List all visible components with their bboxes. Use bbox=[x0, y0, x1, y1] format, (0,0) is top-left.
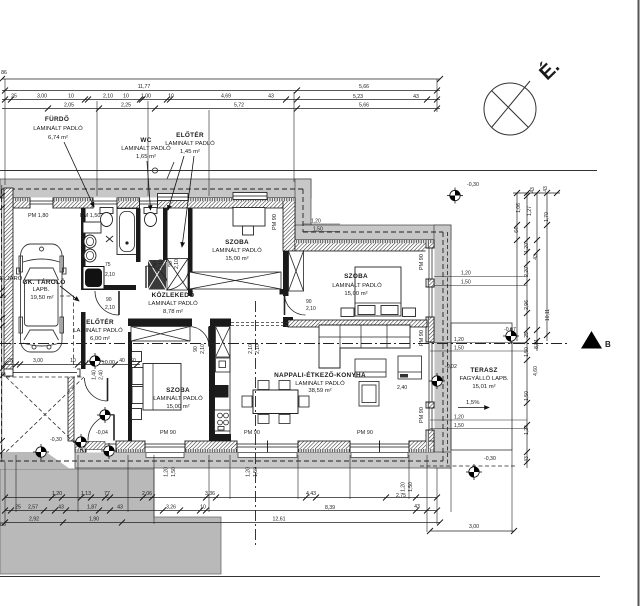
svg-text:25: 25 bbox=[11, 94, 17, 100]
svg-text:43: 43 bbox=[413, 94, 419, 100]
svg-text:PM 90: PM 90 bbox=[272, 214, 278, 230]
rotated window dims bottom bbox=[164, 467, 415, 492]
svg-text:2,10: 2,10 bbox=[103, 94, 113, 100]
interior wall kitchen pier south bbox=[209, 434, 231, 441]
svg-text:2,05: 2,05 bbox=[64, 103, 74, 109]
window nappali south left bbox=[237, 441, 298, 453]
top chain slash ticks bbox=[0, 76, 443, 112]
svg-text:1,50: 1,50 bbox=[454, 346, 464, 352]
svg-text:3,00: 3,00 bbox=[33, 358, 43, 364]
room label eloter1 bbox=[165, 130, 215, 155]
room label wc bbox=[121, 137, 171, 160]
svg-text:25: 25 bbox=[1, 371, 7, 377]
svg-text:1,24: 1,24 bbox=[524, 425, 530, 435]
svg-text:SZOBA: SZOBA bbox=[225, 239, 249, 246]
svg-text:±0,00: ±0,00 bbox=[102, 360, 115, 366]
svg-text:1,50: 1,50 bbox=[313, 227, 323, 233]
left chain small labels bbox=[1, 294, 7, 377]
wall inner tick row south bbox=[75, 449, 434, 452]
svg-text:3,36: 3,36 bbox=[205, 491, 215, 497]
svg-text:5,72: 5,72 bbox=[234, 103, 244, 109]
svg-text:PM 1,50: PM 1,50 bbox=[80, 213, 100, 219]
svg-text:64: 64 bbox=[514, 227, 520, 233]
svg-text:SZOBA: SZOBA bbox=[166, 387, 190, 394]
svg-text:38,59 m²: 38,59 m² bbox=[308, 388, 331, 394]
svg-text:2,25: 2,25 bbox=[121, 103, 131, 109]
eaves dashed line north bbox=[2, 188, 303, 190]
svg-text:ELŐTÉR: ELŐTÉR bbox=[176, 130, 204, 139]
svg-text:2,10: 2,10 bbox=[105, 272, 115, 278]
svg-text:2,10: 2,10 bbox=[255, 344, 261, 354]
bath basin 1 bbox=[84, 235, 96, 248]
szoba3 bed bbox=[355, 267, 401, 316]
eaves dashed line east bbox=[442, 232, 444, 461]
svg-text:43: 43 bbox=[533, 254, 539, 260]
door arc bath bbox=[95, 291, 119, 315]
interior wall wc/eloter1 bbox=[163, 208, 168, 262]
svg-text:LAMINÁLT PADLÓ: LAMINÁLT PADLÓ bbox=[212, 247, 262, 254]
szoba3 nightstand right bbox=[403, 308, 416, 317]
roof overhang band step corner bbox=[295, 179, 311, 240]
svg-text:10: 10 bbox=[68, 94, 74, 100]
svg-text:2,10: 2,10 bbox=[159, 259, 165, 269]
svg-text:B: B bbox=[605, 340, 611, 349]
szoba1 desk bbox=[233, 208, 265, 227]
svg-text:8,78 m²: 8,78 m² bbox=[163, 309, 183, 315]
svg-text:1,50: 1,50 bbox=[524, 347, 530, 357]
svg-text:12,61: 12,61 bbox=[273, 517, 286, 523]
svg-text:LAMINÁLT PADLÓ: LAMINÁLT PADLÓ bbox=[148, 300, 198, 307]
svg-text:8,81: 8,81 bbox=[534, 339, 540, 349]
svg-text:LAMINÁLT PADLÓ: LAMINÁLT PADLÓ bbox=[153, 395, 203, 402]
svg-text:77: 77 bbox=[104, 491, 110, 497]
dining table bbox=[253, 390, 298, 414]
svg-text:WC: WC bbox=[140, 137, 151, 144]
svg-text:1,20: 1,20 bbox=[454, 337, 464, 343]
eaves dashed line step bbox=[302, 189, 304, 232]
masonry wall step (szoba1 east) bbox=[283, 198, 295, 251]
svg-text:1,70: 1,70 bbox=[544, 212, 550, 222]
roof overhang band east bbox=[434, 225, 451, 468]
interior wall szoba3 south (hatched) bbox=[288, 320, 427, 327]
svg-text:43: 43 bbox=[530, 187, 536, 193]
svg-text:1,45 m²: 1,45 m² bbox=[180, 149, 200, 155]
interior wall garage/eloter bbox=[81, 312, 86, 369]
svg-text:1,5%: 1,5% bbox=[466, 400, 480, 406]
section line B horizontal (dash-dot) bbox=[0, 343, 570, 345]
svg-text:LAMINÁLT PADLÓ: LAMINÁLT PADLÓ bbox=[33, 125, 83, 132]
svg-text:PM 1,80: PM 1,80 bbox=[28, 213, 48, 219]
svg-text:10: 10 bbox=[70, 358, 76, 364]
svg-text:2,57: 2,57 bbox=[28, 505, 38, 511]
svg-text:2,06: 2,06 bbox=[142, 491, 152, 497]
svg-text:75: 75 bbox=[105, 262, 111, 268]
leader eloter1 a bbox=[168, 156, 184, 210]
svg-text:PM 90: PM 90 bbox=[160, 430, 176, 436]
szoba1 chair bbox=[243, 226, 254, 235]
door size labels bbox=[105, 262, 316, 312]
svg-text:1,65 m²: 1,65 m² bbox=[136, 154, 156, 160]
washing machine bbox=[83, 267, 104, 290]
szoba3 closet bbox=[289, 251, 304, 291]
bath sink counter bbox=[83, 222, 101, 233]
leader eloter1 b bbox=[182, 156, 194, 247]
window dim pairs east bbox=[303, 224, 527, 429]
svg-text:10: 10 bbox=[123, 94, 129, 100]
masonry wall north (right wing) bbox=[295, 240, 434, 251]
svg-text:GK. TÁROLÓ: GK. TÁROLÓ bbox=[22, 277, 65, 286]
svg-text:LAMINÁLT PADLÓ: LAMINÁLT PADLÓ bbox=[121, 145, 171, 152]
svg-text:1,20: 1,20 bbox=[461, 271, 471, 277]
masonry wall east bbox=[426, 240, 434, 452]
svg-text:1,50: 1,50 bbox=[408, 482, 414, 492]
svg-text:PM 90: PM 90 bbox=[419, 330, 425, 346]
room label terasz bbox=[459, 367, 508, 390]
svg-text:1,50: 1,50 bbox=[454, 423, 464, 429]
kitchen hob bbox=[215, 410, 231, 431]
interior wall bath/wc bbox=[136, 208, 141, 262]
kitchen counter line bbox=[229, 327, 231, 435]
interior wall kozlekedo south right bbox=[210, 319, 231, 327]
svg-text:2,20: 2,20 bbox=[524, 267, 530, 277]
eaves dashed line north-right bbox=[303, 231, 443, 233]
masonry wall north (left wing) bbox=[13, 198, 295, 208]
interior wall kitchen bbox=[209, 326, 215, 434]
terrain line bottom bbox=[0, 576, 600, 578]
svg-text:3,26: 3,26 bbox=[166, 505, 176, 511]
svg-text:4,43: 4,43 bbox=[306, 491, 316, 497]
bottom dimension chains bbox=[5, 498, 514, 532]
svg-text:15,00 m²: 15,00 m² bbox=[225, 256, 248, 262]
interior wall szoba2 west bbox=[128, 332, 132, 441]
dining chairs bbox=[242, 381, 309, 424]
svg-text:25: 25 bbox=[524, 332, 530, 338]
section line A vertical bbox=[255, 301, 257, 548]
svg-text:1,20: 1,20 bbox=[524, 243, 530, 253]
window wc north bbox=[140, 198, 158, 209]
window szoba3 east (double) bbox=[426, 248, 435, 317]
window bath north bbox=[93, 198, 117, 209]
terrace door east (sliding) bbox=[426, 342, 435, 402]
svg-text:2,75: 2,75 bbox=[396, 493, 406, 499]
svg-text:4,69: 4,69 bbox=[221, 94, 231, 100]
svg-text:43: 43 bbox=[268, 94, 274, 100]
masonry wall west (garage) bbox=[4, 188, 13, 376]
svg-text:1,20: 1,20 bbox=[246, 467, 252, 477]
kitchen fridge bbox=[216, 327, 231, 358]
svg-text:25: 25 bbox=[7, 358, 13, 364]
dashed room boundary kozlekedo/nappali bbox=[231, 323, 288, 326]
svg-text:LAMINÁLT PADLÓ: LAMINÁLT PADLÓ bbox=[295, 380, 345, 387]
szoba3 nightstand left bbox=[341, 308, 354, 317]
wall inner tick row east bbox=[426, 240, 429, 452]
svg-text:PM 90: PM 90 bbox=[419, 407, 425, 423]
interior wall kozlekedo south bbox=[128, 319, 192, 327]
window nappali east lower bbox=[426, 408, 435, 430]
svg-text:-0,02: -0,02 bbox=[445, 364, 457, 370]
towel radiator x bbox=[106, 236, 113, 242]
wall inner tick row north-left bbox=[13, 198, 295, 201]
bath basin 2 bbox=[84, 249, 96, 262]
interior wall garage/bath bbox=[81, 208, 86, 290]
szoba1 closet bbox=[190, 272, 282, 289]
svg-text:90: 90 bbox=[193, 346, 199, 352]
room label szoba1 bbox=[212, 239, 262, 262]
szoba2 nightstand bottom bbox=[132, 409, 142, 420]
svg-text:60: 60 bbox=[130, 358, 136, 364]
window szoba1 north (flush type) bbox=[233, 193, 267, 200]
svg-text:6,00 m²: 6,00 m² bbox=[90, 336, 110, 342]
entry door south bbox=[86, 441, 116, 453]
terrace slab outline bbox=[451, 323, 512, 450]
interior wall szoba1 south pier bbox=[280, 289, 286, 295]
svg-text:2,10: 2,10 bbox=[105, 305, 115, 311]
left dimension chain bbox=[1, 185, 3, 462]
svg-text:NAPPALI-ÉTKEZŐ-KONYHA: NAPPALI-ÉTKEZŐ-KONYHA bbox=[274, 370, 366, 379]
kitchen sink (dark) bbox=[215, 385, 229, 398]
roof overhang band north (gray) bbox=[0, 179, 311, 198]
svg-text:43: 43 bbox=[524, 456, 530, 462]
window garage north bbox=[30, 198, 53, 209]
interior wall szoba3 left lower bbox=[283, 317, 293, 327]
door arc entry bbox=[88, 415, 114, 441]
door arc szoba3 bbox=[285, 294, 306, 315]
svg-text:2,96: 2,96 bbox=[524, 300, 530, 310]
svg-text:1,27: 1,27 bbox=[527, 206, 533, 216]
south window sill boxes bbox=[146, 453, 408, 458]
entry threshold hatch bbox=[85, 442, 105, 450]
svg-text:FÜRDŐ: FÜRDŐ bbox=[45, 114, 69, 123]
svg-text:1,50: 1,50 bbox=[253, 467, 259, 477]
svg-text:1,20: 1,20 bbox=[454, 415, 464, 421]
svg-text:11,77: 11,77 bbox=[138, 84, 151, 90]
svg-text:SZOBA: SZOBA bbox=[344, 273, 368, 280]
leader wc bbox=[147, 161, 151, 210]
svg-text:ELŐTÉR: ELŐTÉR bbox=[86, 317, 114, 326]
svg-text:2,40: 2,40 bbox=[99, 370, 105, 380]
svg-text:5,66: 5,66 bbox=[359, 103, 369, 109]
top dimension chain lines bbox=[2, 79, 440, 109]
svg-text:2,10: 2,10 bbox=[248, 344, 254, 354]
interior wall step szoba3 left bbox=[283, 251, 289, 296]
szoba2 bed bbox=[132, 364, 181, 411]
door arc wc bbox=[146, 266, 168, 288]
svg-text:1,90: 1,90 bbox=[89, 517, 99, 523]
wc pan (bathroom) bbox=[100, 208, 113, 227]
entry door panel with X (eloter1) bbox=[166, 259, 189, 291]
svg-text:LAMINÁLT PADLÓ: LAMINÁLT PADLÓ bbox=[73, 327, 123, 334]
room label kozlekedo bbox=[148, 290, 198, 315]
svg-text:8,39: 8,39 bbox=[325, 505, 335, 511]
driveway dashed ramp bbox=[6, 296, 84, 452]
svg-text:6,74 m²: 6,74 m² bbox=[48, 135, 68, 141]
svg-text:10,11: 10,11 bbox=[545, 309, 551, 321]
top chain extension verticals bbox=[5, 79, 437, 196]
sofa bbox=[319, 325, 410, 368]
interior wall eloter1/szoba1 bbox=[188, 208, 193, 296]
svg-text:1,00: 1,00 bbox=[141, 94, 151, 100]
svg-text:1,20: 1,20 bbox=[401, 482, 407, 492]
svg-text:43: 43 bbox=[414, 504, 420, 510]
eaves dashed line south bbox=[0, 460, 443, 462]
door arc nappali bbox=[189, 327, 209, 347]
driveway paved area (gray, bottom-left) bbox=[0, 469, 221, 574]
svg-text:GK. FELJÁRÓ: GK. FELJÁRÓ bbox=[0, 275, 23, 282]
car in garage bbox=[17, 244, 67, 352]
interior wall bath south bbox=[85, 285, 136, 290]
sheet border right bbox=[638, 0, 640, 606]
svg-text:40: 40 bbox=[119, 358, 125, 364]
svg-text:4,60: 4,60 bbox=[533, 366, 539, 376]
masonry wall porch (south-west) bbox=[68, 369, 74, 441]
north symbol bbox=[484, 81, 536, 135]
svg-text:LAMINÁLT PADLÓ: LAMINÁLT PADLÓ bbox=[332, 282, 382, 289]
room label nappali bbox=[274, 370, 366, 394]
window szoba2 south bbox=[145, 441, 185, 453]
svg-text:1,50: 1,50 bbox=[171, 467, 177, 477]
leader garage bbox=[60, 286, 79, 301]
svg-text:86: 86 bbox=[1, 70, 7, 76]
svg-text:10: 10 bbox=[168, 94, 174, 100]
svg-text:2,10: 2,10 bbox=[200, 344, 206, 354]
svg-text:10: 10 bbox=[200, 505, 206, 511]
svg-text:1,50: 1,50 bbox=[524, 391, 530, 401]
svg-text:43: 43 bbox=[58, 505, 64, 511]
window nappali south right bbox=[350, 441, 409, 453]
svg-text:1,20: 1,20 bbox=[164, 467, 170, 477]
svg-text:25: 25 bbox=[1, 294, 7, 300]
room label eloter2 bbox=[73, 317, 123, 342]
bottom extension verticals bbox=[5, 450, 512, 532]
garage door opening south bbox=[13, 369, 77, 377]
svg-text:3,00: 3,00 bbox=[37, 94, 47, 100]
door arc szoba2 bbox=[85, 378, 108, 401]
right dimension chain bbox=[513, 193, 560, 468]
svg-text:-0,04: -0,04 bbox=[96, 430, 108, 436]
svg-text:1,20: 1,20 bbox=[52, 491, 62, 497]
svg-text:1,50: 1,50 bbox=[461, 280, 471, 286]
room label szoba3 bbox=[332, 273, 382, 297]
bathtub bbox=[117, 209, 137, 255]
roof overhang band north-right bbox=[295, 225, 451, 240]
svg-text:LAMINÁLT PADLÓ: LAMINÁLT PADLÓ bbox=[165, 140, 215, 147]
svg-text:1,06: 1,06 bbox=[516, 203, 522, 213]
section marker B triangle bbox=[581, 331, 602, 349]
svg-text:KÖZLEKEDŐ: KÖZLEKEDŐ bbox=[152, 290, 195, 299]
room label szoba2 bbox=[153, 387, 203, 410]
svg-text:2,10: 2,10 bbox=[174, 259, 180, 269]
svg-text:-0,30: -0,30 bbox=[50, 437, 62, 443]
eaves line north (site line) bbox=[0, 170, 597, 172]
wall inner tick row north-right bbox=[295, 240, 434, 243]
szoba2 nightstand top bbox=[132, 352, 142, 362]
gray sidewalk wedge left of entry bbox=[0, 452, 70, 469]
roof overhang band south bbox=[75, 452, 451, 468]
svg-text:PM 90: PM 90 bbox=[357, 430, 373, 436]
svg-text:PM 90: PM 90 bbox=[419, 254, 425, 270]
attic ladder (dark crossed box) bbox=[148, 260, 166, 290]
svg-text:90: 90 bbox=[106, 297, 112, 303]
room label garage bbox=[22, 277, 65, 301]
svg-text:1,87: 1,87 bbox=[87, 505, 97, 511]
svg-text:-0,30: -0,30 bbox=[467, 182, 479, 188]
top chain labels bbox=[1, 70, 419, 109]
svg-text:PM 90: PM 90 bbox=[244, 430, 260, 436]
svg-text:43: 43 bbox=[117, 505, 123, 511]
svg-text:15,00 m²: 15,00 m² bbox=[344, 291, 367, 297]
svg-text:15,00 m²: 15,00 m² bbox=[166, 404, 189, 410]
svg-text:-0,30: -0,30 bbox=[484, 456, 496, 462]
wc pan (wc room) bbox=[144, 208, 157, 227]
svg-text:1,40: 1,40 bbox=[92, 370, 98, 380]
garage door dimension row bbox=[4, 364, 140, 366]
svg-text:TERASZ: TERASZ bbox=[470, 367, 497, 374]
svg-text:FAGYÁLLÓ LAPB.: FAGYÁLLÓ LAPB. bbox=[459, 375, 508, 382]
svg-text:3,00: 3,00 bbox=[469, 524, 479, 530]
survey level markers bbox=[87, 353, 103, 369]
svg-text:43: 43 bbox=[543, 186, 549, 192]
masonry wall south bbox=[75, 441, 434, 452]
svg-text:1,20: 1,20 bbox=[311, 219, 321, 225]
kitchen unit bbox=[216, 358, 231, 372]
terrace roof dashed bbox=[447, 232, 449, 466]
svg-text:2,10: 2,10 bbox=[306, 306, 316, 312]
szoba2 closet bbox=[131, 327, 190, 342]
garage south wall line bbox=[4, 369, 80, 376]
svg-text:5,66: 5,66 bbox=[359, 84, 369, 90]
svg-text:15,01 m²: 15,01 m² bbox=[472, 384, 495, 390]
coffee table 2 bbox=[359, 382, 379, 407]
svg-text:5,23: 5,23 bbox=[353, 94, 363, 100]
svg-text:19,50 m²: 19,50 m² bbox=[30, 295, 53, 301]
coffee table 1 bbox=[355, 359, 386, 377]
room label furdo bbox=[33, 114, 83, 141]
svg-text:90: 90 bbox=[306, 299, 312, 305]
tv cabinet bbox=[398, 356, 422, 379]
svg-text:1,13: 1,13 bbox=[81, 491, 91, 497]
window eloter1 north (flush type) bbox=[158, 194, 189, 201]
leader furdo bbox=[64, 142, 94, 207]
eaves dashed line west bbox=[1, 189, 3, 461]
svg-text:2,40: 2,40 bbox=[397, 385, 407, 391]
svg-text:LAPB.: LAPB. bbox=[33, 287, 50, 293]
svg-text:2,92: 2,92 bbox=[29, 517, 39, 523]
